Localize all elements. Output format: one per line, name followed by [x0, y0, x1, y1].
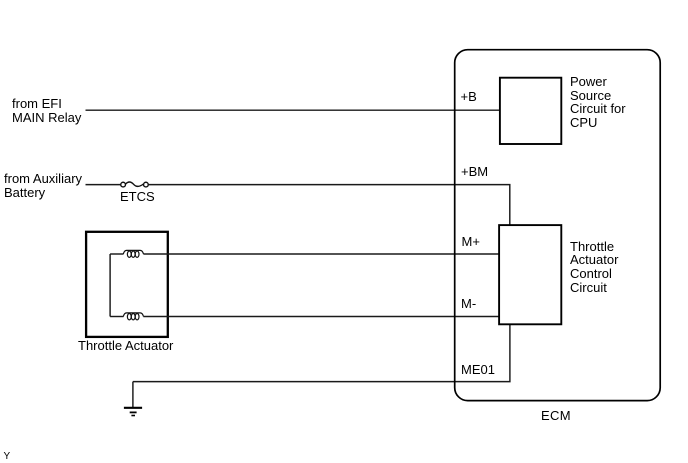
wire coil M+ lead left — [110, 253, 123, 255]
label Power Source Circuit for CPU — [570, 75, 626, 130]
label ECM — [541, 409, 571, 423]
inductor coil L1 — [123, 250, 143, 257]
inductor coil L2 — [123, 313, 143, 320]
wire from Auxiliary Battery to fuse — [86, 184, 121, 186]
ground — [124, 408, 142, 416]
throttle actuator box — [86, 232, 168, 337]
pin +BM — [461, 165, 488, 179]
throttle actuator control circuit box — [499, 225, 561, 324]
label ETCS — [120, 190, 155, 204]
pin M+ — [462, 235, 480, 249]
wire from EFI MAIN Relay to +B — [86, 109, 500, 111]
power source circuit box — [500, 78, 561, 144]
wire M- to ECM — [143, 316, 499, 318]
wire coil M- lead left — [110, 316, 123, 318]
wire fuse to +BM with drop to throttle control box — [148, 185, 509, 226]
fuse ETCS — [121, 182, 148, 187]
wire ground drop — [132, 382, 134, 407]
label Throttle Actuator Control Circuit — [570, 240, 618, 295]
label from EFI MAIN Relay — [12, 97, 81, 125]
label Throttle Actuator — [78, 339, 173, 353]
pin +B — [461, 90, 477, 104]
wire ME01 from ground to throttle control box — [133, 325, 510, 382]
pin M- — [461, 297, 476, 311]
wire M+ to ECM — [143, 253, 499, 255]
label from Auxiliary Battery — [4, 172, 82, 200]
page marker Y — [4, 450, 11, 463]
pin ME01 — [461, 363, 495, 377]
wire inner vertical joining coils — [109, 254, 111, 317]
ECM box — [455, 50, 661, 401]
